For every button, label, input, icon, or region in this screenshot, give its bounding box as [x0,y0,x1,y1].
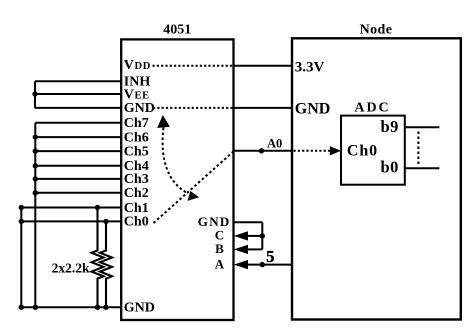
junction dot Ch5 [33,148,38,153]
wire Ch5 [35,150,121,152]
junction dot C [260,233,265,238]
svg-text:A0: A0 [267,136,282,150]
wire Ch0 [21,220,121,222]
wire vertical left Ch1-GND [20,208,22,308]
svg-text:3.3V: 3.3V [295,59,325,75]
resistor R2 2.2k [100,221,112,307]
junction dot GND left [19,305,24,310]
wire b0 [405,167,440,169]
svg-text:Node: Node [360,23,393,38]
svg-text:B: B [215,241,224,256]
junction dot Ch2 [33,190,38,195]
junction dot Ch3 [33,176,38,181]
arrowhead selector up at Ch7 [157,115,170,128]
dotted bits ellipsis [417,132,419,165]
resistor R1 2.2k [92,208,104,308]
junction dot GND bus [33,305,38,310]
svg-text:Ch7: Ch7 [124,116,149,131]
junction dot A [260,262,265,267]
wire C [247,235,262,237]
arrowhead A [234,260,248,269]
wire vertical INH-GND bus [34,81,36,108]
dashed selector sweep curve [163,128,188,194]
svg-text:GND: GND [124,101,155,116]
svg-text:Ch1: Ch1 [124,201,149,216]
svg-text:Ch0: Ch0 [347,142,378,159]
junction dot Ch1 resistor [95,205,100,210]
wire Ch6 [35,136,121,138]
svg-text:GND: GND [124,301,155,316]
wire INH [35,80,121,82]
arrowhead into ADC [330,146,341,155]
arrowhead selector down-right [188,191,200,201]
wire Ch1 [21,207,121,209]
svg-text:A: A [215,256,225,271]
junction dot Ch4 [33,163,38,168]
svg-text:Ch5: Ch5 [124,144,149,159]
wire Ch7 [35,122,121,124]
svg-text:Ch2: Ch2 [124,186,149,201]
IC U2 Node box [292,38,461,319]
junction dot GND R1 [95,305,100,310]
junction dot Ch6 [33,134,38,139]
wire Ch4 [35,165,121,167]
svg-text:ADC: ADC [354,101,390,116]
svg-text:b0: b0 [380,158,398,177]
svg-text:5: 5 [266,247,274,266]
svg-text:4051: 4051 [163,23,191,38]
IC U1 4051 box [121,39,233,320]
wire VEE [35,93,121,95]
wire vertical GND to B [261,222,263,249]
wire VDD to 3.3V [234,65,293,67]
junction dot VEE [32,91,37,96]
dotted wire VDD internal [153,65,234,67]
wire Ch2 [35,192,121,194]
svg-text:Ch6: Ch6 [124,130,149,145]
arrowhead B [234,245,248,254]
junction dot A0 [259,148,264,153]
svg-text:b9: b9 [380,117,398,136]
ADC block [341,116,405,185]
svg-text:VEE: VEE [124,87,150,102]
wire GND bottom [21,306,121,308]
svg-text:GND: GND [295,100,331,117]
svg-text:2x2.2k: 2x2.2k [52,261,90,276]
wire A0 [234,150,293,152]
svg-text:Ch0: Ch0 [124,215,149,230]
junction dot Ch0 left [19,219,24,224]
junction dot Ch1 left [19,205,24,210]
wire Ch3 [35,178,121,180]
wire GND to node GND [234,107,293,109]
dotted wire A0 to ADC Ch0 [294,150,331,152]
wire b9 [405,126,440,128]
wire A from node [247,264,292,266]
junction dot Ch0 resistor [103,219,108,224]
dotted wire Ch0 to A0 [154,151,234,223]
arrowhead C [234,231,248,240]
dotted wire GND internal [153,107,234,109]
svg-text:VDD: VDD [124,58,151,73]
wire GND [35,107,121,109]
wire B [247,248,262,250]
svg-text:Ch3: Ch3 [124,172,149,187]
junction dot GND R2 [103,305,108,310]
wire vertical Ch7-GND bus [34,123,36,307]
wire GND right pin [234,221,263,223]
